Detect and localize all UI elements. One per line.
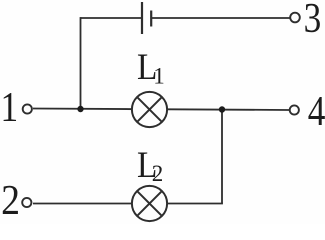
- svg-text:1: 1: [1, 84, 19, 131]
- junction dot right (node B): [219, 106, 225, 112]
- wire right vertical (junction down to bottom wire): [221, 110, 223, 204]
- svg-text:2: 2: [1, 176, 20, 223]
- battery cell B1 long plate: [141, 2, 143, 34]
- terminal 2 circle: [22, 198, 31, 207]
- svg-text:1: 1: [153, 64, 165, 89]
- wire middle horizontal (terminal 1 to terminal 4): [33, 109, 289, 111]
- svg-text:4: 4: [308, 88, 325, 135]
- wire top-right horizontal (battery to terminal 3): [152, 17, 290, 19]
- wire left vertical (top node down to junction): [80, 17, 82, 109]
- lamp L1: [132, 92, 167, 127]
- terminal 4 circle: [290, 105, 299, 114]
- svg-text:3: 3: [304, 0, 322, 42]
- terminal 3 circle: [290, 13, 300, 23]
- battery cell B1 short plate: [150, 11, 152, 27]
- wire bottom horizontal (terminal 2 to right vertical): [33, 203, 223, 205]
- junction dot left (node A): [77, 106, 83, 112]
- terminal 1 circle: [23, 104, 32, 113]
- svg-text:2: 2: [152, 161, 164, 186]
- wire top-left horizontal (node to battery): [81, 17, 142, 19]
- lamp L2: [132, 186, 167, 221]
